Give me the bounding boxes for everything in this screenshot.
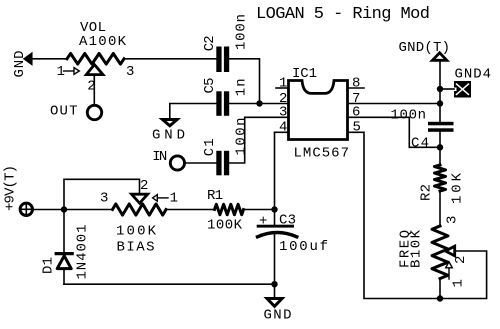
- resistor R2 10K: [419, 165, 466, 204]
- svg-text:GND: GND: [152, 128, 185, 144]
- svg-text:OUT: OUT: [50, 104, 78, 120]
- title: [256, 5, 430, 24]
- svg-text:C1: C1: [202, 138, 218, 156]
- wire: [229, 117, 288, 163]
- wire: [186, 162, 216, 164]
- node junction pin7 bus: [437, 100, 443, 106]
- wire: [439, 62, 441, 122]
- pin 7: [348, 91, 441, 107]
- pad +9V(T): [2, 165, 32, 216]
- svg-text:100n: 100n: [391, 108, 427, 124]
- pin 2: [279, 91, 287, 107]
- svg-text:B10K: B10K: [409, 229, 425, 268]
- pin 8: [348, 75, 365, 91]
- wire: [64, 209, 113, 211]
- svg-text:100n: 100n: [234, 118, 250, 156]
- svg-text:GND(T): GND(T): [399, 40, 451, 56]
- svg-text:+9V(T): +9V(T): [2, 165, 18, 211]
- svg-text:LMC567: LMC567: [294, 146, 350, 162]
- potentiometer BIAS 100K: [100, 178, 178, 256]
- svg-text:LOGAN 5 - Ring Mod: LOGAN 5 - Ring Mod: [256, 5, 430, 24]
- svg-text:1: 1: [170, 191, 178, 207]
- svg-text:IC1: IC1: [292, 66, 317, 82]
- svg-text:D1: D1: [41, 257, 57, 274]
- capacitor C3 100uf: [257, 213, 328, 256]
- wire: [166, 209, 215, 211]
- wire: [229, 59, 259, 104]
- wire: [170, 104, 217, 119]
- pad IN: [152, 149, 184, 170]
- node junction +9V: [61, 206, 67, 212]
- svg-text:R1: R1: [207, 188, 223, 204]
- node junction GND4 tap: [437, 86, 443, 92]
- ground GND (under C5): [152, 120, 185, 144]
- node junction bottom rail: [271, 281, 277, 287]
- wire: [439, 279, 441, 299]
- capacitor C1 100n: [202, 118, 250, 176]
- ground GND (bottom): [264, 299, 292, 324]
- svg-text:BIAS: BIAS: [117, 240, 155, 256]
- pad OUT: [50, 104, 102, 120]
- ground GND (top-left terminal): [12, 51, 32, 78]
- svg-text:1: 1: [57, 64, 65, 80]
- svg-text:10K: 10K: [450, 172, 466, 204]
- pin 1: [276, 75, 289, 91]
- pad GND4: [454, 67, 491, 98]
- wire: [439, 132, 441, 165]
- svg-text:C4: C4: [411, 136, 429, 152]
- pin 3: [279, 105, 287, 121]
- wire pin4 down: [274, 132, 276, 225]
- capacitor C5 1n: [202, 78, 250, 116]
- resistor R1 100K: [207, 188, 244, 234]
- node junction R1/pin4/C3: [271, 206, 277, 212]
- svg-text:+: +: [259, 214, 267, 230]
- svg-text:C5: C5: [202, 78, 218, 94]
- capacitor C4 100n: [391, 108, 454, 152]
- potentiometer FREQ B10K: [397, 216, 469, 288]
- svg-text:GND4: GND4: [455, 67, 492, 83]
- wire: [34, 209, 65, 211]
- svg-text:3: 3: [445, 216, 461, 224]
- svg-text:100n: 100n: [234, 14, 250, 50]
- svg-text:C3: C3: [279, 213, 296, 229]
- wire: [274, 234, 276, 298]
- node junction C2/C5/pin2: [256, 100, 262, 106]
- svg-text:8: 8: [352, 75, 360, 91]
- wire loop to BIAS wiper: [64, 179, 140, 209]
- ground GND(T) terminal: [399, 40, 451, 60]
- wire: [440, 88, 454, 90]
- wire: [439, 191, 441, 226]
- svg-text:2: 2: [453, 256, 469, 264]
- capacitor C2 100n: [202, 14, 250, 72]
- svg-text:100K: 100K: [207, 218, 243, 234]
- svg-text:1: 1: [279, 75, 287, 91]
- svg-text:100uf: 100uf: [279, 239, 328, 255]
- wire: [229, 103, 288, 105]
- wire: [32, 58, 67, 60]
- svg-text:3: 3: [279, 105, 287, 121]
- svg-text:R2: R2: [419, 184, 435, 201]
- pin 5: [348, 120, 441, 299]
- diode D1 1N4001: [41, 210, 91, 285]
- svg-text:3: 3: [100, 191, 108, 207]
- svg-text:6: 6: [352, 105, 360, 121]
- svg-text:GND: GND: [12, 51, 28, 78]
- svg-text:A100K: A100K: [79, 34, 127, 50]
- svg-text:1n: 1n: [234, 78, 250, 96]
- potentiometer VOL A100K: [57, 20, 135, 95]
- svg-text:GND: GND: [264, 308, 292, 324]
- node junction pot bottom: [437, 295, 443, 301]
- wire bottom rail: [64, 283, 275, 285]
- svg-text:3: 3: [126, 64, 134, 80]
- svg-text:1N4001: 1N4001: [75, 225, 91, 280]
- IC IC1 LMC567: [289, 66, 350, 162]
- wire: [244, 209, 275, 211]
- svg-text:2: 2: [140, 178, 148, 194]
- wire: [440, 251, 487, 299]
- pin 4: [275, 120, 289, 136]
- svg-text:5: 5: [353, 120, 361, 136]
- svg-text:C2: C2: [202, 35, 218, 51]
- node junction C4/R2/pin6: [437, 144, 443, 150]
- pin 6: [348, 105, 441, 148]
- svg-text:IN: IN: [152, 149, 167, 165]
- svg-text:1: 1: [451, 279, 467, 287]
- svg-text:4: 4: [279, 120, 287, 136]
- wire: [124, 58, 216, 60]
- wire: [93, 76, 95, 104]
- svg-text:100K: 100K: [116, 224, 157, 240]
